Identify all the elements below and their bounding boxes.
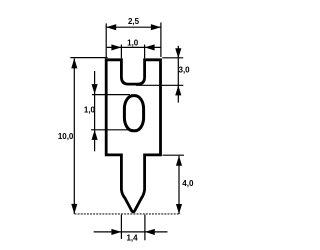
feature line at slot bottom (3,0 reference): [136, 84, 183, 86]
terminal body outline with top U-slot, side steps and tapered solder pin: [106, 60, 160, 212]
svg-text:1,0: 1,0: [127, 38, 139, 47]
extension line from body top-right corner: [162, 57, 183, 59]
extension line from body top-left corner: [70, 57, 107, 59]
dimension line 1,4 (pin width): [94, 231, 168, 233]
extension line pin left edge: [120, 215, 122, 239]
arrowhead 10,0 top: [71, 58, 77, 68]
dotted datum line at pin tip: [75, 213, 181, 215]
svg-text:10,0: 10,0: [58, 132, 74, 141]
svg-text:1,0: 1,0: [84, 105, 96, 114]
dimension line 1,0 (oval height, left side): [94, 71, 96, 151]
svg-text:1,4: 1,4: [126, 234, 138, 243]
arrowhead 4,0 bottom: [176, 204, 182, 214]
arrowhead 1,0 left bottom: [92, 130, 98, 140]
arrowhead 1,0 slot right: [145, 44, 155, 50]
arrowhead 1,4 left: [111, 229, 121, 235]
dimension line 2,5 (body width): [106, 26, 161, 28]
svg-text:4,0: 4,0: [182, 179, 194, 188]
svg-text:3,0: 3,0: [179, 66, 191, 75]
dimension line 1,0 (slot width): [107, 46, 161, 48]
arrowhead 2,5 left: [106, 24, 116, 30]
arrowhead 4,0 top: [176, 156, 182, 166]
feature line at oval top (1,0 reference): [92, 94, 130, 96]
feature line at oval bottom (1,0 reference): [91, 129, 133, 131]
arrowhead 2,5 right: [151, 24, 161, 30]
extension line body right edge: [160, 23, 162, 58]
arrowhead 10,0 bottom: [71, 204, 77, 214]
arrowhead 1,0 slot left: [111, 44, 121, 50]
arrowhead 3,0 top: [175, 48, 181, 58]
arrowhead 1,4 right: [145, 229, 155, 235]
dimension line 3,0 (slot depth): [177, 46, 179, 103]
extension line slot right edge: [144, 45, 146, 59]
arrowhead 3,0 bottom: [175, 85, 181, 95]
extension line from right step: [163, 154, 185, 156]
dimension line 10,0 (overall height): [73, 58, 75, 214]
extension line pin right edge: [144, 215, 146, 241]
svg-text:2,5: 2,5: [128, 17, 140, 26]
arrowhead 1,0 left top: [92, 84, 98, 94]
oval hole in body center: [124, 96, 143, 131]
extension line slot left edge: [120, 45, 122, 59]
dimension line 4,0 (pin length): [178, 156, 180, 214]
extension line body left edge: [105, 23, 107, 57]
